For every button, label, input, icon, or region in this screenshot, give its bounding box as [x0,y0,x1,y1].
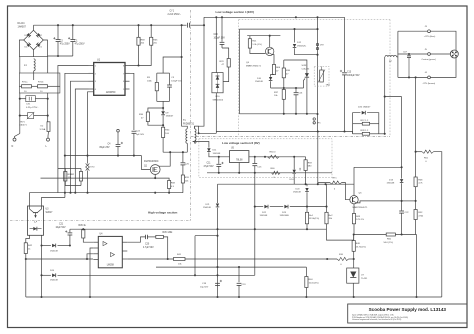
bridge AC loop [19,40,47,57]
resistor R37 [283,88,285,90]
trimmer TR3 box [314,66,329,86]
diode D22 [255,206,263,208]
svg-text:1N4148: 1N4148 [260,215,268,217]
secondary top to rail [195,126,217,133]
sense column from J4 [415,77,417,151]
svg-text:1N4148: 1N4148 [293,192,301,194]
bus wire 5 [88,92,94,164]
svg-text:D26 1N4007: D26 1N4007 [358,107,371,109]
wire bridge bottom [33,50,35,57]
svg-text:C21: C21 [59,224,64,226]
resistor R48 [415,152,417,177]
section I bottom rail [239,113,317,115]
jumper JP1 [313,118,315,120]
U3 phototransistor [30,206,35,213]
wire snubber top to rail [163,57,182,73]
wire Q1 source [154,174,156,178]
resistor R60 zero ohm [272,171,281,174]
wires inside RT1 box [19,85,21,87]
capacitor C3 [167,84,172,86]
feedback bottom rail [354,234,387,236]
RT1 resistor [330,181,342,184]
svg-text:R12 1.2: R12 1.2 [361,120,369,122]
bottom primary rail [58,192,183,194]
svg-text:1N4148: 1N4148 [213,153,221,155]
diode D20 [306,184,308,186]
transformer T1 secondary winding [195,129,196,144]
diode D11 [193,142,209,148]
wire U1 pin to transformer rail [130,73,134,130]
wire right AC column [47,93,49,122]
svg-text:10.0k(1%): 10.0k(1%) [309,282,319,284]
wire bridge top to top rail [33,25,35,30]
svg-text:MMBT3904LT1: MMBT3904LT1 [353,207,369,209]
bottom rail 3 [156,266,306,268]
svg-text:47µ 250V: 47µ 250V [75,44,85,46]
connector J4 [428,76,431,79]
svg-text:56.0 (1%): 56.0 (1%) [384,242,394,244]
svg-text:1N4148: 1N4148 [50,251,58,253]
diode D9 [161,111,165,115]
wire D14 top [293,157,295,170]
svg-text:R64 0: R64 0 [270,152,277,154]
mid feedback rail [402,200,416,202]
U4 op-amp A [103,242,107,246]
RT1 box [19,73,60,93]
svg-text:Universal engineered schematic: Universal engineered schematic, last che… [352,318,402,321]
svg-text:2.2nF 250V~: 2.2nF 250V~ [168,14,182,16]
transformer T1 primary winding [186,129,187,144]
svg-text:1N5262C: 1N5262C [297,45,307,47]
svg-text:9.76 1%: 9.76 1% [356,219,364,221]
U3 pin wires [30,193,58,206]
isolation boundary vertical [190,10,192,221]
resistor R12 [353,123,363,125]
wire Q6 collector to D13 [354,166,402,168]
resistor RT1a [22,85,32,88]
svg-text:FKD80731: FKD80731 [183,123,195,125]
resistor R58 [168,181,171,189]
Q6 emitter wire [357,201,402,203]
rail 229 [70,228,327,230]
section II ground rail [207,172,332,174]
svg-text:RT1a: RT1a [22,81,28,83]
wire U4 pin to C20 [127,237,145,242]
wire top rail [34,24,182,26]
shunt regulator TL431 [347,268,359,283]
wire Q1 gate [142,156,151,170]
Q4 emitter down [272,55,274,65]
wire loop to rail [238,29,240,114]
diode D13 [400,179,403,182]
capacitor C22 [401,201,403,211]
U3 right bottom pin down [41,235,43,245]
wire rail down [317,132,319,185]
bridge rectifier D1-D4 [24,30,44,50]
capacitor CX1 [20,98,26,100]
U1 left bus wires [58,66,89,193]
resistor R44 [305,267,307,276]
resistor R26 [181,175,184,183]
U4 op-amp B [111,253,115,257]
svg-text:1N5246B: 1N5246B [280,215,290,217]
svg-text:100µF 16V: 100µF 16V [214,38,226,40]
wire to terminal N [15,134,20,139]
diode D19 [42,245,51,247]
isolation boundary horizontal left [10,220,191,222]
inductor L2 [385,55,397,56]
svg-text:N: N [12,145,14,148]
wire JP column top [317,17,319,131]
svg-text:4.7µF 50V: 4.7µF 50V [143,247,154,249]
svg-text:R39 1.2: R39 1.2 [361,130,369,132]
transistor Q4 [266,47,274,55]
wire snubber bottom to D9 [162,101,164,110]
junction dots top rail [57,24,59,26]
capacitor C16 [295,88,297,92]
connector J3 [428,30,431,33]
svg-text:CY1: CY1 [170,11,175,13]
primary rail vertical [182,25,188,128]
diode D24 [42,274,51,276]
wire left AC column [19,93,21,134]
zener D12 [294,29,296,42]
diode D21 column [217,184,219,203]
resistor R23 [222,48,229,59]
svg-text:C06-8G: C06-8G [302,68,310,70]
Q4 collector top [269,36,271,48]
svg-text:C20: C20 [145,244,150,246]
resistor R68 [138,25,140,37]
svg-text:1N4007: 1N4007 [166,116,174,118]
svg-text:R45 130k: R45 130k [163,232,174,234]
svg-text:LM358: LM358 [107,264,115,266]
svg-text:82.0k(1%): 82.0k(1%) [309,218,319,220]
bottom rail 1 [26,258,93,260]
wire col 195 [195,235,218,237]
svg-text:Low voltage section I (22V): Low voltage section I (22V) [216,10,255,14]
regulator U5 78L08 [230,151,249,163]
connector J5 [428,53,431,56]
svg-text:1200P60: 1200P60 [106,91,116,94]
snubber R3 C3 loop [157,72,170,74]
diode D21 [216,204,219,207]
output wires to connectors [397,31,399,77]
capacitor C1 [72,25,74,39]
resistor R43 [353,204,355,214]
svg-text:47µ 250V: 47µ 250V [60,44,70,46]
svg-text:10µ 50V: 10µ 50V [200,286,209,288]
wire U10 cathode to rail [215,17,217,72]
resistor RT1b [38,85,48,88]
svg-text:0.22µ 275V~: 0.22µ 275V~ [26,107,39,109]
title block box [348,304,467,323]
resistor R34 [162,127,165,137]
resistor R31 [306,207,308,213]
svg-text:MMBT2906LT1: MMBT2906LT1 [246,65,262,67]
svg-text:RT1b: RT1b [38,81,44,83]
wire U4 pin2 down [90,248,93,297]
svg-text:1N4148: 1N4148 [387,183,395,185]
resistor R32 [326,184,328,212]
svg-text:SBR20100: SBR20100 [213,99,224,101]
U3 LED [30,228,34,230]
gate wire [271,87,304,89]
resistor R52 [415,201,417,210]
capacitor C13 [344,17,346,72]
varistor RV1 [20,115,28,117]
source rail [41,178,170,180]
svg-text:+22V (blue): +22V (blue) [424,36,436,38]
U5 output wire [249,156,306,158]
capacitor C24 [132,130,137,132]
svg-text:-22V (brown): -22V (brown) [423,82,436,85]
Low voltage section I (22V) dashed box [238,20,240,137]
MOSFET Q1 [150,165,160,175]
resistor R46 [353,235,355,241]
svg-text:C13: C13 [347,72,352,74]
resistor R59 [305,157,307,160]
wire R33 taps [58,169,65,172]
drain node wire [163,151,187,153]
IC U1 1200P60 [94,63,125,96]
capacitor C15 [254,157,256,163]
resistor R51 [422,150,434,153]
svg-text:23.7k(1%): 23.7k(1%) [356,246,366,248]
bottom rail 4 ground [26,296,442,298]
resistor R36 [282,68,285,78]
switch K70 [86,164,90,168]
22V minus rail [216,131,352,133]
wire U3 column down [41,246,43,298]
resistor R21 [248,39,251,48]
resistor R66 [272,65,275,75]
svg-text:FGPF10N60C: FGPF10N60C [144,161,159,163]
resistor R50 [386,233,395,236]
DIN connector [450,50,458,58]
svg-text:14D471: 14D471 [19,125,27,127]
zener D23 [284,205,288,209]
op-amp U4 box [98,236,122,267]
22V output riser [384,57,386,134]
U10 rail top [204,16,345,18]
resistor R35 [148,108,163,112]
resistor R3 [155,82,158,90]
U10 left column [195,17,204,128]
wire AC columns [19,57,21,73]
wire Q1 drain [158,152,170,166]
SCR1 anode top [284,60,307,71]
terminal L [47,138,50,141]
wire U4 pin3 [87,254,93,259]
svg-text:Centre (green): Centre (green) [422,58,436,61]
terminal N [13,138,16,141]
svg-text:10µF 50V: 10µF 50V [56,227,66,229]
svg-text:100pF 1kV: 100pF 1kV [171,80,182,82]
wire sense branch from L2 riser [385,96,402,98]
U4 left pins [93,241,98,243]
resistor R33 [64,172,67,182]
LED D14 [293,170,296,173]
svg-text:80µF 25V: 80µF 25V [100,147,110,149]
resistor R32b [79,172,82,182]
section divider horizontal right [191,135,390,137]
wire R51 left [416,151,422,153]
R21 Q4 loop [247,35,280,37]
U10 bottom wire [215,93,217,134]
svg-text:1N4148: 1N4148 [203,207,211,209]
column 254.8 [254,166,256,275]
svg-text:TL431: TL431 [361,278,368,280]
transistor Q6 [350,196,358,204]
U1 left pins [89,65,94,67]
resistor R10 [337,257,349,260]
bottom rail 2 [185,258,337,260]
svg-text:SLB17: SLB17 [46,212,54,214]
secondary bottom wire [194,142,196,144]
wire fuse to terminal L [47,132,50,139]
svg-text:1N4007: 1N4007 [18,25,27,28]
drain RC clamp C26 [182,152,184,162]
svg-text:47µF 50V: 47µF 50V [204,166,214,168]
wire DC minus rail [48,55,73,57]
resistor R65 [150,25,152,37]
Low voltage section II (8V) dashed box [199,139,332,178]
svg-text:Low voltage section II (8V): Low voltage section II (8V) [222,141,260,145]
jumper JP2 [316,43,318,45]
wire D13 col [401,97,403,179]
svg-text:1N4148: 1N4148 [255,81,263,83]
mid rail 184 [218,183,355,185]
section I top rail [239,28,317,30]
svg-text:3.15A: 3.15A [40,128,46,131]
svg-text:Scooba Power Supply mod. L1314: Scooba Power Supply mod. L13143 [369,307,447,312]
svg-text:High voltage section: High voltage section [148,211,178,215]
gate drive wire [65,155,142,157]
trimmer TR3 [320,70,324,82]
diode D10 [269,77,272,80]
svg-text:R45 1k: R45 1k [79,225,87,227]
resistor R42 [24,243,27,254]
U4 right pins [122,241,127,243]
wire R51 right riser [434,152,442,297]
wire rail229 to R46 [327,229,354,240]
resistor R38 on rail [353,133,363,135]
transformer T1 primary bottom wire [186,143,188,152]
inductor L1 [34,59,36,71]
svg-text:1.3k (1%): 1.3k (1%) [252,44,262,46]
wire down right [416,235,418,298]
U1 right pins [125,65,130,67]
fuse K2 [47,122,50,132]
svg-text:1N4148: 1N4148 [50,279,58,281]
wire rail junction [352,132,354,134]
capacitor CY1 [182,24,187,26]
rectifier U10 SBR20100 [212,73,223,93]
svg-text:1000µF 50V: 1000µF 50V [347,75,360,77]
U5 ground pin [238,163,240,173]
capacitor C2 [57,25,59,39]
svg-text:78L08: 78L08 [236,159,243,161]
U3 left bottom pin to R42 [26,235,30,243]
svg-text:1µF 50V: 1µF 50V [136,134,145,136]
optocoupler U3 box [28,206,44,235]
